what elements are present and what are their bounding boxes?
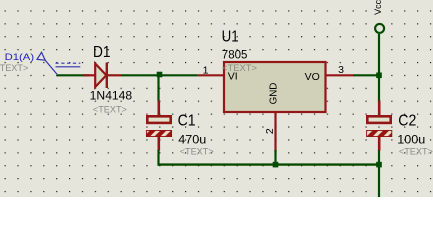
top plate — [147, 116, 170, 123]
svg-text:2: 2 — [264, 128, 276, 134]
top plate — [367, 116, 390, 123]
regulator U1 (7805) body — [224, 62, 326, 112]
wire: junction down to C1 — [157, 75, 159, 101]
svg-text:D1(A): D1(A) — [5, 52, 35, 63]
svg-text:VO: VO — [305, 71, 320, 83]
bottom pin — [158, 137, 161, 151]
svg-text:GND: GND — [267, 82, 279, 104]
svg-text:1N4148: 1N4148 — [90, 90, 133, 102]
wire: C1 bottom to ground rail — [157, 150, 159, 166]
svg-text:3: 3 — [338, 64, 344, 76]
bottom plate (hatched) — [146, 130, 171, 136]
pin 3 stub — [326, 74, 354, 76]
diode D1 — [83, 63, 121, 89]
wire: terminal to diode anode — [57, 74, 89, 76]
wire: U1 pin 2 to ground rail — [274, 150, 276, 166]
wire: rail continues down off-sheet — [378, 165, 380, 197]
wire: C2 bottom to ground rail — [378, 150, 380, 166]
cathode bar — [106, 63, 108, 89]
ground rail wire — [159, 163, 380, 165]
junction: rail at C2 column — [376, 162, 382, 168]
svg-text:D1: D1 — [93, 44, 111, 61]
diode triangle — [95, 64, 106, 88]
input terminal D1(A) — [37, 52, 80, 74]
pin 2 stub (GND down) — [274, 112, 276, 152]
svg-text:<TEXT>: <TEXT> — [180, 146, 214, 156]
anode pin — [83, 74, 95, 76]
wire: VCC terminal down through node to C2 — [378, 34, 380, 102]
junction: wire to C1 — [157, 72, 163, 78]
top pin — [378, 101, 381, 117]
svg-text:C2: C2 — [398, 112, 416, 129]
capacitor C2 — [367, 101, 392, 151]
svg-text:Vcc: Vcc — [373, 0, 383, 15]
svg-text:VI: VI — [228, 71, 238, 83]
svg-text:<TEXT>: <TEXT> — [0, 63, 28, 73]
junction: VO wire to vertical VCC/C2 wire — [376, 73, 382, 79]
svg-text:U1: U1 — [222, 29, 239, 46]
svg-text:470u: 470u — [178, 134, 206, 146]
cathode pin — [107, 74, 121, 76]
svg-text:100u: 100u — [397, 135, 425, 147]
svg-text:C1: C1 — [178, 112, 196, 129]
svg-text:<TEXT>: <TEXT> — [399, 146, 433, 156]
bottom pin — [378, 137, 381, 151]
junction: U1 pin2 at rail — [273, 162, 279, 168]
bottom plate (hatched) — [367, 130, 392, 136]
svg-text:<TEXT>: <TEXT> — [93, 104, 127, 114]
wire: U1 VO to VCC node — [353, 74, 379, 76]
top pin — [158, 101, 161, 117]
capacitor C1 — [146, 101, 171, 151]
svg-text:1: 1 — [203, 64, 209, 76]
svg-text:7805: 7805 — [222, 50, 248, 62]
pin 1 stub — [198, 74, 224, 76]
wire: diode cathode to U1 pin 1 — [121, 74, 198, 76]
power terminal VCC — [375, 24, 384, 33]
